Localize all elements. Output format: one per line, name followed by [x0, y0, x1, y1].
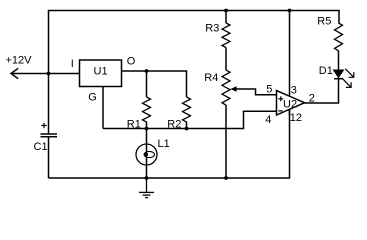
potentiometer R4 [222, 70, 230, 105]
LED D1 [334, 70, 344, 79]
node: +12V / U1 input junction [47, 72, 51, 76]
LED D1 emission arrow 2 [343, 79, 351, 88]
wire: R3 top lead from rail [225, 11, 227, 24]
wire: lamp L1 to bottom rail [146, 165, 148, 178]
wire: R5 lead to LED D1 [338, 51, 340, 70]
svg-text:R5: R5 [317, 16, 331, 28]
wire: left rail down to C1 [48, 74, 50, 135]
wire: C1 to bottom rail corner [48, 137, 50, 179]
wire: op-amp pin 12 supply to ground rail (upper stub) [289, 109, 291, 115]
svg-text:C1: C1 [34, 141, 48, 153]
wire: R2 bottom to feedback net [186, 122, 188, 129]
svg-text:R4: R4 [204, 72, 218, 84]
op-amp U2 minus input mark [278, 110, 282, 112]
wire: +12V feed to U1 input [49, 73, 80, 75]
svg-text:5: 5 [266, 84, 272, 96]
wire: U1 output to R1/R2 [122, 71, 187, 97]
svg-text:4: 4 [265, 114, 271, 126]
node: R1 bottom / feedback junction [145, 127, 149, 131]
wire: R1 bottom to lamp L1 [146, 122, 148, 144]
svg-text:D1: D1 [319, 65, 333, 77]
wire: feedback net G-R1-R2 to op-amp pin 4 [103, 111, 277, 128]
regulator U1 box [80, 60, 122, 87]
wire: R4 bottom to ground rail [225, 105, 227, 178]
svg-text:3: 3 [291, 85, 297, 97]
wire: ground bottom rail [49, 109, 290, 178]
capacitor C1 [41, 123, 58, 137]
ground symbol [139, 178, 154, 198]
svg-text:U2: U2 [283, 99, 297, 111]
wire: +12V top rail [49, 11, 340, 74]
svg-text:2: 2 [309, 93, 315, 105]
node: R2 bottom / feedback junction [185, 127, 189, 131]
wire: op-amp pin 3 supply from rail [289, 11, 291, 97]
node: top rail / R3 junction [224, 9, 228, 13]
wire: R4 wiper to op-amp pin 5 [235, 89, 277, 95]
svg-text:R2: R2 [167, 119, 181, 131]
svg-text:R1: R1 [127, 119, 141, 131]
svg-text:O: O [127, 56, 136, 68]
svg-text:I: I [71, 58, 74, 70]
svg-text:R3: R3 [205, 23, 219, 35]
resistor R3 [222, 23, 230, 48]
node: U1 output junction to R1 [145, 69, 149, 73]
resistor R2 [183, 97, 191, 122]
wire: U1 G pin down [102, 87, 104, 129]
svg-text:G: G [88, 92, 97, 104]
op-amp U2 plus input mark [278, 96, 283, 101]
+12V supply arrow [11, 68, 49, 78]
wire: LED D1 to op-amp output pin 2 [305, 79, 339, 104]
svg-text:U1: U1 [94, 66, 108, 78]
svg-text:+12V: +12V [6, 55, 33, 67]
potentiometer R4 wiper arrow [230, 86, 236, 92]
LED D1 emission arrow 1 [345, 69, 354, 78]
svg-text:12: 12 [290, 112, 302, 124]
node: lamp / ground rail junction [145, 176, 149, 180]
lamp L1 [136, 144, 157, 165]
svg-text:L1: L1 [158, 138, 170, 150]
wire: R3 bottom to R4 top [225, 48, 227, 71]
resistor R1 [143, 97, 151, 122]
node: top rail / op-amp pin 3 junction [288, 9, 292, 13]
resistor R5 [335, 23, 343, 51]
node: R4 / ground rail junction [224, 176, 228, 180]
op-amp U2 triangle [277, 91, 305, 116]
wire: R1 branch from output node [146, 71, 148, 97]
